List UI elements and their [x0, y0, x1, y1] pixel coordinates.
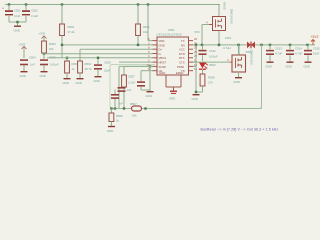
- resistor R501: [136, 24, 151, 36]
- svg-text:C514: C514: [295, 47, 302, 51]
- svg-text:C512: C512: [209, 49, 216, 53]
- U501 bottom pins: [166, 75, 181, 91]
- svg-text:+3V3: +3V3: [311, 35, 319, 39]
- ground: [63, 78, 71, 85]
- svg-text:BusRead --> In [7.28] V --> Ou: BusRead --> In [7.28] V --> Out 36.3 + 1…: [201, 128, 279, 132]
- svg-text:2.2nF: 2.2nF: [128, 81, 135, 85]
- svg-text:GND: GND: [286, 65, 292, 69]
- wire rail to GND at x196: [196, 45, 203, 92]
- wire U501 pin row7 to R506: [124, 66, 153, 75]
- resistor R510: [78, 61, 92, 78]
- svg-text:GND: GND: [14, 29, 20, 33]
- svg-text:27.4k: 27.4k: [68, 30, 75, 34]
- wire from top rail to R502: [61, 5, 63, 25]
- svg-text:DMG3415U: DMG3415U: [230, 9, 234, 24]
- wire U501 pin row6 right to T502 gate: [193, 61, 230, 63]
- svg-text:GND: GND: [304, 65, 310, 69]
- node junction dots on +3V3 rail: [195, 44, 309, 46]
- svg-text:1uF: 1uF: [127, 88, 132, 92]
- resistor R506: [122, 75, 127, 109]
- wire VBUS top rail: [5, 4, 220, 6]
- svg-text:GND: GND: [192, 97, 198, 101]
- svg-text:GND: GND: [146, 94, 152, 98]
- capacitor C504: [20, 56, 36, 72]
- svg-text:0.01uF: 0.01uF: [209, 55, 218, 59]
- svg-text:uF: uF: [120, 102, 124, 106]
- wire U501 pin row5 to C508: [47, 58, 153, 64]
- supply +3V3 (above R504): [39, 32, 47, 42]
- transistor T501: [206, 17, 226, 31]
- svg-text:270: 270: [208, 81, 213, 85]
- supply +3V3 (left): [19, 43, 27, 59]
- svg-text:0.01uF: 0.01uF: [50, 63, 59, 67]
- wire R501 bottom to row2: [137, 36, 139, 45]
- ground: [107, 126, 115, 133]
- svg-text:EPAD: EPAD: [176, 71, 183, 75]
- svg-text:C508: C508: [104, 61, 111, 65]
- IC U501 main box: [157, 28, 189, 75]
- svg-text:48.7k: 48.7k: [85, 67, 92, 71]
- svg-text:5V0: 5V0: [195, 30, 200, 34]
- U501 left pins: [153, 41, 158, 71]
- svg-text:C513: C513: [275, 47, 282, 51]
- pale frame box annotation: [110, 47, 262, 109]
- wire U501 pin row7 stub to x196: [193, 65, 196, 67]
- svg-text:22nF: 22nF: [104, 69, 111, 73]
- svg-text:GND: GND: [107, 129, 113, 133]
- svg-text:C502: C502: [31, 9, 38, 13]
- capacitor C508: [94, 61, 111, 77]
- resistor R508: [200, 74, 215, 92]
- svg-text:10uF: 10uF: [14, 14, 21, 18]
- node junction R504/C505: [43, 53, 45, 55]
- svg-text:GND: GND: [20, 74, 26, 78]
- capacitor C509 on loop vertical: [118, 87, 132, 92]
- wire U501 pin row6 loop left edge: [119, 62, 153, 108]
- svg-text:0.1uF: 0.1uF: [31, 14, 38, 18]
- svg-text:DMG3415U: DMG3415U: [250, 50, 254, 65]
- wire to U501 pin row4: [44, 53, 153, 59]
- svg-text:+: +: [2, 7, 4, 11]
- svg-text:1uF: 1uF: [30, 63, 35, 67]
- resistor R504: [42, 41, 57, 53]
- svg-text:D502: D502: [209, 63, 216, 67]
- svg-text:GND: GND: [40, 74, 46, 78]
- svg-text:R502: R502: [68, 25, 75, 29]
- U501 left pin numbers: [147, 37, 151, 71]
- svg-text:C507: C507: [128, 75, 135, 79]
- ground: [94, 76, 102, 83]
- ground: [76, 78, 84, 85]
- U501 left pin names: [159, 39, 167, 73]
- resistor R503: [65, 61, 79, 78]
- wire from top rail to R501: [137, 5, 139, 25]
- svg-text:GND: GND: [94, 79, 100, 83]
- svg-text:4.7uF: 4.7uF: [275, 52, 282, 56]
- wire R502 to U501 pin row2: [62, 36, 153, 58]
- U501 right pin names: [177, 39, 185, 73]
- U501 right pins: [189, 41, 194, 71]
- svg-text:R501: R501: [143, 25, 150, 29]
- capacitor C501: [2, 5, 21, 23]
- wire from U501 pin row3 down to R510: [80, 49, 153, 61]
- capacitor C512: [199, 45, 218, 61]
- resistor R502: [60, 24, 75, 36]
- svg-text:GND: GND: [76, 81, 82, 85]
- capacitor C514: [286, 45, 303, 69]
- wire loop right edge: [261, 45, 263, 109]
- svg-text:+3V3: +3V3: [19, 43, 26, 47]
- node +3V3 label: [311, 35, 319, 45]
- capacitor C515: [304, 45, 320, 69]
- svg-text:GND: GND: [63, 81, 69, 85]
- svg-text:C515: C515: [313, 47, 320, 51]
- wire bottom net: [110, 108, 262, 110]
- wire jog to R503: [66, 58, 68, 61]
- wire +3V3 rail: [193, 44, 315, 46]
- svg-text:+3V3: +3V3: [39, 32, 46, 36]
- svg-text:C504: C504: [29, 56, 36, 60]
- svg-text:10uF: 10uF: [313, 52, 320, 56]
- svg-text:C501: C501: [14, 9, 21, 13]
- capacitor C507: [128, 71, 150, 90]
- svg-text:10k: 10k: [49, 47, 54, 51]
- svg-text:R510: R510: [85, 62, 92, 66]
- svg-text:GND: GND: [234, 80, 240, 84]
- svg-text:CP2102N/QFN28: CP2102N/QFN28: [157, 33, 182, 37]
- transistor T502: [227, 45, 246, 77]
- wire T501 gate: [202, 25, 209, 45]
- diode D501 on rail: [247, 42, 255, 49]
- svg-text:R504: R504: [49, 42, 56, 46]
- ground: [14, 26, 22, 33]
- svg-text:GND: GND: [169, 97, 175, 101]
- svg-text:VBUS: VBUS: [223, 2, 227, 10]
- capacitor C502: [22, 5, 38, 23]
- wire T501 drain to rail: [218, 31, 220, 45]
- svg-text:4.7uF: 4.7uF: [295, 52, 302, 56]
- resistor R505: [109, 109, 123, 126]
- svg-text:R508: R508: [208, 76, 215, 80]
- svg-text:GND: GND: [266, 65, 272, 69]
- svg-text:10k: 10k: [132, 114, 137, 118]
- wire cap bottoms: [9, 22, 26, 26]
- ground: [146, 91, 154, 98]
- wire to GND at x150: [149, 66, 151, 91]
- node junction dots on top rail: [8, 3, 149, 5]
- ground: [40, 71, 48, 78]
- wire VBUS to U501 pin row1: [148, 5, 153, 41]
- svg-text:L501: L501: [225, 36, 232, 40]
- wire VBUS vertical into T501: [218, 5, 220, 17]
- svg-text:R505: R505: [116, 114, 123, 118]
- svg-text:4.7uH: 4.7uH: [223, 46, 230, 50]
- svg-text:10k: 10k: [143, 30, 148, 34]
- svg-text:U501: U501: [168, 28, 175, 32]
- ground: [192, 94, 200, 101]
- ground: [234, 77, 243, 84]
- wire U501 pin row8 region to C507: [141, 70, 153, 72]
- LED D502: [199, 63, 216, 75]
- U501 right pin numbers: [194, 37, 198, 71]
- capacitor C506: [111, 90, 123, 109]
- node junction dots bottom net: [110, 107, 147, 109]
- resistor R507 (inline pill): [130, 102, 142, 118]
- capacitor C505: [40, 56, 59, 72]
- capacitor C513: [266, 45, 283, 69]
- ground: [20, 71, 28, 78]
- svg-text:GND: GND: [159, 71, 165, 75]
- ground exposed pad symbol: [169, 91, 177, 101]
